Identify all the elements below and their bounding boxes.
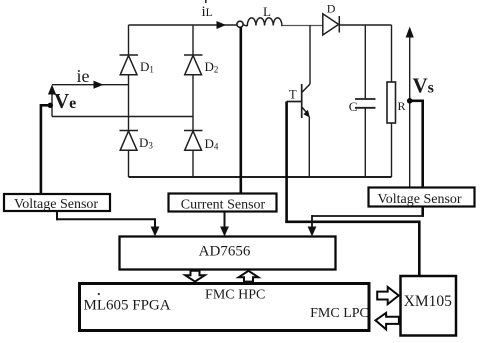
svg-text:D2: D2 [205, 59, 219, 75]
svg-text:D3: D3 [139, 135, 153, 151]
svg-text:AD7656: AD7656 [199, 244, 251, 260]
svg-text:FMC LPC: FMC LPC [310, 306, 369, 321]
svg-text:FMC HPC: FMC HPC [205, 287, 265, 302]
svg-text:R: R [398, 99, 406, 113]
svg-text:Voltage Sensor: Voltage Sensor [377, 192, 461, 207]
svg-text:D4: D4 [205, 136, 219, 152]
svg-text:Ve: Ve [54, 89, 76, 113]
svg-text:ie: ie [77, 66, 90, 86]
svg-text:XM105: XM105 [404, 293, 452, 310]
svg-text:L: L [263, 4, 271, 19]
svg-text:ML605 FPGA: ML605 FPGA [84, 298, 171, 314]
svg-text:D: D [327, 1, 336, 15]
svg-text:T: T [289, 87, 297, 101]
svg-text:Vs: Vs [413, 74, 434, 98]
svg-text:C: C [349, 99, 358, 114]
svg-text:iL: iL [202, 4, 213, 20]
svg-text:D1: D1 [140, 59, 154, 75]
svg-text:Voltage Sensor: Voltage Sensor [14, 197, 98, 212]
svg-text:Current Sensor: Current Sensor [181, 197, 266, 212]
